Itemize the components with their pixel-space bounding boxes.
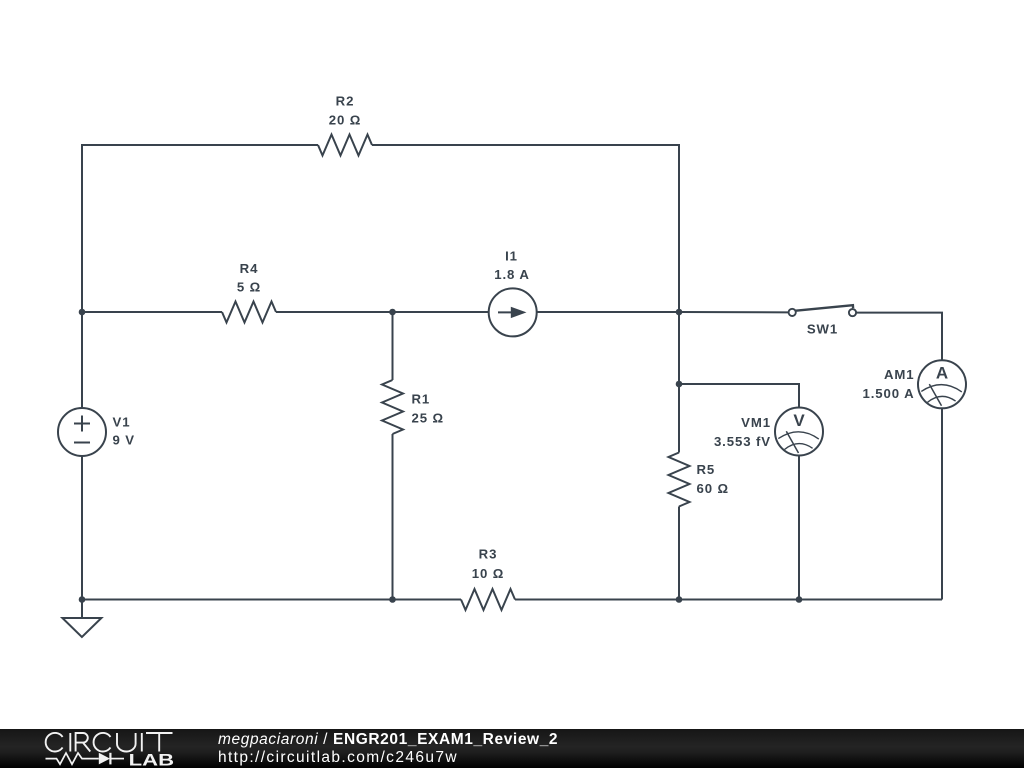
wire V1 bottom to ground node: [81, 456, 83, 600]
wire VM1 bottom to bottom wire: [798, 456, 800, 600]
wire R3 to bottom-right corner: [515, 599, 942, 601]
wire R5 to bottom wire: [678, 507, 680, 600]
footer bar: [0, 729, 1024, 768]
resistor R2: [318, 94, 372, 156]
ammeter AM1: [863, 360, 967, 408]
footer text line 2: [218, 750, 458, 765]
resistor R3: [461, 547, 515, 611]
wire switch to AM1 top: [856, 313, 942, 361]
node A: [79, 309, 86, 316]
svg-text:VM1: VM1: [741, 415, 771, 430]
node C (VM1/R5 tap): [676, 381, 683, 388]
node B (right vertical mid): [676, 309, 683, 316]
svg-text:V: V: [793, 411, 805, 430]
svg-text:1.8 A: 1.8 A: [494, 267, 530, 282]
switch SW1: [789, 305, 857, 336]
wire node B to switch: [679, 311, 789, 313]
CircuitLab logo: [46, 733, 175, 768]
svg-text:R3: R3: [479, 547, 498, 562]
wire R4 to I1: [276, 311, 489, 313]
svg-text:3.553 fV: 3.553 fV: [714, 434, 771, 449]
voltage source V1: [58, 408, 135, 456]
svg-text:R2: R2: [336, 94, 355, 109]
resistor R5: [669, 453, 730, 507]
wire node A down to V1: [81, 312, 83, 408]
wire mid-left from node A to R4: [82, 311, 222, 313]
svg-text:V1: V1: [113, 415, 131, 430]
wire node D down to R1: [392, 312, 394, 380]
wire top-left: left vertical + top horizontal to R2: [82, 145, 318, 312]
svg-text:SW1: SW1: [807, 322, 838, 337]
voltmeter VM1: [714, 408, 823, 456]
wire R1 to bottom wire: [392, 434, 394, 600]
wire node C to R5: [678, 384, 680, 453]
node R5 bottom: [676, 596, 683, 603]
wire node B down to node C: [678, 312, 680, 384]
node R1 bottom: [389, 596, 396, 603]
resistor R1: [382, 380, 444, 434]
svg-text:25 Ω: 25 Ω: [412, 411, 445, 426]
svg-text:A: A: [936, 364, 948, 383]
node D (R1 top): [389, 309, 396, 316]
svg-text:60 Ω: 60 Ω: [697, 481, 730, 496]
svg-text:I1: I1: [505, 249, 518, 264]
resistor R4: [222, 261, 276, 323]
svg-text:20 Ω: 20 Ω: [329, 113, 362, 128]
ground: [62, 600, 101, 638]
svg-text:R1: R1: [412, 392, 431, 407]
footer text line 1: [218, 732, 558, 747]
node VM1 bottom: [796, 596, 803, 603]
wire node C to VM1 top: [679, 384, 799, 408]
svg-text:1.500 A: 1.500 A: [863, 386, 915, 401]
wire AM1 bottom to bottom-right corner: [941, 408, 943, 599]
svg-text:9 V: 9 V: [113, 433, 136, 448]
svg-text:R4: R4: [240, 261, 259, 276]
svg-text:10 Ω: 10 Ω: [472, 566, 505, 581]
wire top-right horizontal + right vertical down to mid node: [372, 145, 679, 312]
node ground junction: [79, 596, 86, 603]
wire bottom-left to R3: [82, 599, 461, 601]
svg-text:R5: R5: [697, 462, 716, 477]
svg-text:AM1: AM1: [884, 367, 915, 382]
svg-text:LAB: LAB: [129, 751, 174, 768]
current source I1: [489, 249, 537, 337]
svg-text:5 Ω: 5 Ω: [237, 280, 261, 295]
wire I1 to node B: [537, 311, 679, 313]
